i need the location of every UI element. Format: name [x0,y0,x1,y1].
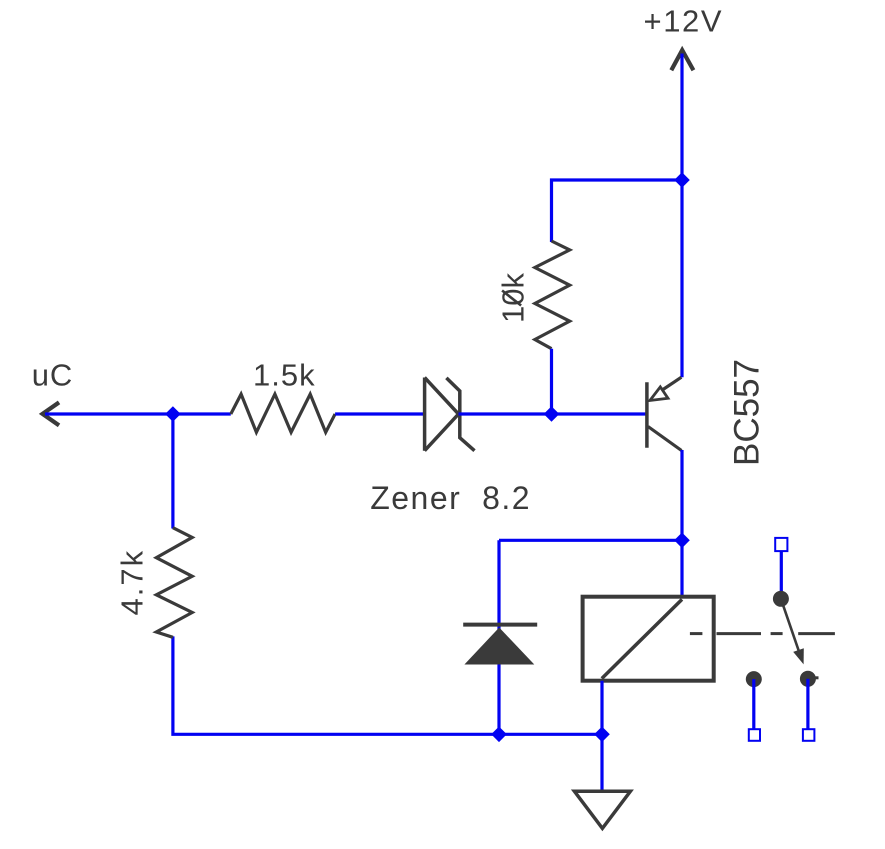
wire +12V vertical to emitter [680,54,683,378]
actuator dashed link [717,632,762,635]
switch pivot dot [773,591,789,607]
transistor emitter arrow (open) [650,387,668,401]
resistor 10k zigzag [535,241,570,349]
zener diode D1 anode bar [423,378,427,451]
transistor Q1 base bar [645,382,649,448]
wire uC node down to 4.7k [171,414,174,529]
node junction diode/bottom [491,727,507,743]
transistor emitter line [660,377,681,391]
switch top terminal square [775,538,787,551]
+12V arrow head [672,50,692,68]
wire relay bottom to ground rail [600,681,603,792]
resistor 4.7k zigzag [156,528,192,638]
wire 1.5k to zener [335,412,425,415]
svg-text:4.7k: 4.7k [115,549,150,616]
relay actuator dash inside [690,632,703,635]
label 10k [496,273,531,323]
svg-text:uC: uC [32,357,73,392]
switch lower-left contact dot [746,671,762,687]
node junction collector/diode [674,533,690,549]
relay coil diagonal [602,599,682,678]
wire 10k to base node [550,349,553,414]
node junction uC / 4.7k [165,406,181,422]
diode D2 cathode bar [463,623,537,627]
node junction at +12V rail [674,172,690,188]
switch lower-right contact tick [808,676,819,679]
switch lower-right wire [806,679,809,729]
wire zener to base [459,412,647,415]
switch lever [781,599,800,653]
switch lower-right terminal square [803,729,815,741]
svg-text:Zener 8.2: Zener 8.2 [370,480,531,516]
uC arrow head [43,404,58,425]
zener diode triangle [425,378,459,451]
node junction relay/ground [594,727,610,743]
bottom wire from 4.7k [173,636,602,734]
svg-text:1.5k: 1.5k [253,358,316,393]
wire diode branch vertical [497,540,500,734]
switch lower-left wire [752,679,755,729]
ground symbol [574,791,630,828]
wire collector node to diode branch [499,539,682,542]
wire collector to relay [680,450,683,597]
transistor collector line [648,427,682,451]
diode D2 triangle (filled) [464,628,534,665]
svg-text:+12V: +12V [644,4,724,39]
wire top horizontal to 10k [552,180,683,242]
switch lever arrow head [793,648,804,664]
wire uC to 1.5k [45,412,231,415]
switch lower-left terminal square [749,729,760,741]
svg-text:BC557: BC557 [728,359,767,466]
resistor 1.5k zigzag [231,394,335,432]
label 4.7k [115,549,150,616]
switch top wire [780,551,783,598]
relay K1 box [583,597,714,681]
switch lower-right contact dot [800,671,816,687]
zener cathode bar with ticks [446,378,474,451]
node junction base/10k [544,406,560,422]
